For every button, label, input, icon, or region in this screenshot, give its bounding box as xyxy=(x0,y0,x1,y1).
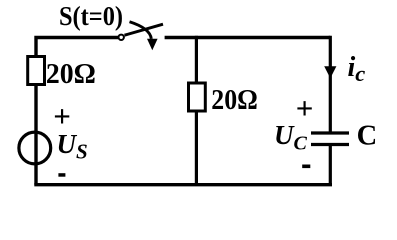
resistor R2 20ohm middle xyxy=(189,83,206,111)
wire: middle rail top segment xyxy=(195,36,198,84)
wire: right rail upper segment to capacitor top plate xyxy=(329,36,332,132)
wire: left rail lower segment through source to bottom xyxy=(34,84,37,185)
switch blade xyxy=(125,24,164,35)
switch closing motion arc xyxy=(130,22,152,39)
voltage source US circle xyxy=(19,132,51,164)
capacitor C bottom plate xyxy=(311,143,349,146)
wire: top wire from switch to node and right corner xyxy=(165,36,331,39)
wire: bottom wire xyxy=(34,183,332,186)
label - of source xyxy=(58,173,65,177)
current arrow head ic xyxy=(324,66,336,78)
wire: middle rail bottom segment xyxy=(195,111,198,185)
switch S(t=0) pole circle xyxy=(119,35,124,40)
wire: right rail lower segment from capacitor to bottom xyxy=(329,146,332,185)
svg-text:20Ω: 20Ω xyxy=(211,84,257,116)
svg-text:S(t=0): S(t=0) xyxy=(59,0,123,31)
switch closing arrow head xyxy=(147,39,158,51)
resistor R1 20ohm left xyxy=(28,57,45,85)
svg-text:C: C xyxy=(357,121,378,152)
svg-text:+: + xyxy=(296,91,314,126)
svg-text:20Ω: 20Ω xyxy=(46,58,96,90)
label - of capacitor xyxy=(302,165,310,169)
capacitor C top plate xyxy=(311,131,349,134)
svg-text:ic: ic xyxy=(348,52,366,86)
wire: left rail top segment + top wire to switch xyxy=(36,38,118,58)
svg-text:US: US xyxy=(57,129,88,164)
